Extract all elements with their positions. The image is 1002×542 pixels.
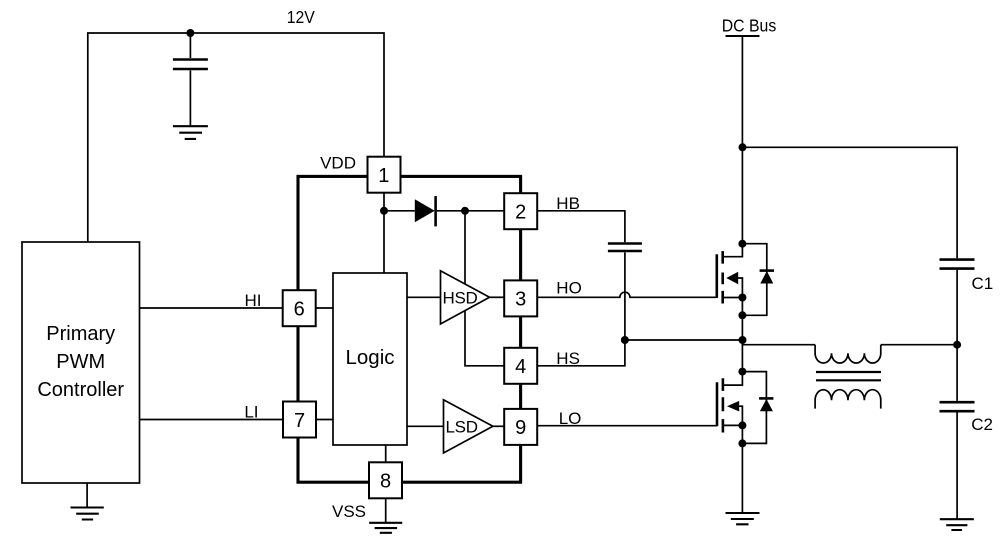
wire HSD to pin3 [490, 296, 504, 298]
svg-text:VSS: VSS [332, 502, 366, 521]
wire LSD to pin9 [493, 425, 504, 427]
capacitor C-VDD [173, 60, 208, 70]
svg-text:9: 9 [515, 417, 526, 439]
svg-text:6: 6 [294, 299, 305, 321]
transistor Q2 (low-side MOSFET) [717, 368, 773, 448]
logic box [333, 273, 407, 445]
wire transformer to C midpoint [881, 344, 957, 346]
diode bootstrap [415, 199, 435, 222]
wire switch to Q2 drain [741, 340, 743, 372]
wire boot cap to HS node [624, 252, 626, 340]
svg-text:LI: LI [244, 403, 258, 422]
capacitor C-boot [608, 244, 642, 252]
node switch [739, 336, 747, 344]
wire logic to LSD [407, 425, 444, 427]
ground VSS [369, 523, 402, 533]
svg-text:LO: LO [559, 409, 582, 428]
IC U1 border [298, 176, 521, 482]
wire HO with hop [538, 292, 717, 297]
node diode cathode junction [461, 207, 469, 215]
svg-text:1: 1 [378, 165, 389, 187]
svg-text:7: 7 [294, 410, 305, 432]
pin 1 (VDD) [368, 157, 401, 193]
svg-text:Controller: Controller [37, 379, 124, 401]
wire LO [538, 425, 718, 427]
transformer primary winding [815, 345, 881, 363]
svg-text:C2: C2 [971, 415, 993, 434]
svg-text:Primary: Primary [46, 323, 115, 345]
wire pin6 to logic [317, 307, 334, 309]
node 12V junction [186, 29, 194, 37]
pin 2 (HB) [504, 193, 537, 229]
pin 7 (LI) [283, 402, 316, 438]
svg-text:C1: C1 [972, 274, 994, 293]
wire diode anode [384, 210, 415, 212]
svg-text:PWM: PWM [56, 351, 105, 373]
wire HS [537, 340, 625, 366]
capacitor C1 [940, 260, 975, 269]
transistor Q1 (high-side MOSFET) [717, 240, 774, 320]
pin 9 (LO) [504, 409, 537, 445]
svg-text:HS: HS [556, 349, 580, 368]
buffer HSD [441, 271, 490, 324]
wire diode cathode [436, 210, 504, 212]
wire logic to pin8 [385, 445, 387, 464]
node C midpoint [953, 341, 961, 349]
node DC bus split [739, 143, 747, 151]
svg-text:DC Bus: DC Bus [722, 16, 777, 36]
ground 12V cap [173, 126, 208, 139]
wire VDD stem pin1 to logic [383, 193, 385, 274]
wire Q1 source to switch node [741, 315, 743, 340]
wire HB [538, 211, 625, 243]
PWM controller box [22, 242, 140, 483]
wire cap stem bottom [189, 70, 191, 126]
ground PWM [71, 508, 104, 520]
wire LI [140, 419, 283, 421]
svg-text:VDD: VDD [320, 154, 356, 173]
wire 12V rail [88, 33, 384, 242]
wire cap stem top [189, 33, 191, 58]
svg-text:HI: HI [245, 291, 262, 310]
wire pin8 ground stem [385, 498, 387, 523]
svg-text:4: 4 [515, 356, 526, 378]
ground C2 [940, 519, 974, 530]
svg-text:HO: HO [556, 279, 582, 298]
capacitor C2 [940, 402, 975, 411]
transformer core [816, 372, 881, 380]
wire cathode to pin4 [465, 211, 504, 366]
wire C2 to ground [956, 413, 958, 520]
transformer secondary winding [815, 390, 881, 409]
svg-text:HB: HB [556, 194, 580, 213]
wire DC bus down [741, 36, 743, 244]
wire switch node [625, 339, 743, 341]
svg-text:12V: 12V [287, 7, 315, 27]
wire PWM ground stem [86, 483, 88, 507]
pin 6 (HI) [283, 290, 316, 326]
pin 3 (HO) [504, 280, 537, 316]
pin 4 (HS) [504, 348, 537, 384]
node diode anode junction [380, 207, 388, 215]
svg-text:3: 3 [515, 289, 526, 311]
svg-text:LSD: LSD [446, 417, 478, 436]
terminal DC Bus [726, 35, 760, 37]
wire bus to C1 [743, 147, 958, 258]
svg-text:2: 2 [515, 202, 526, 224]
wire C1 to midpoint [956, 270, 958, 401]
svg-text:Logic: Logic [345, 346, 394, 369]
svg-text:8: 8 [380, 471, 391, 493]
buffer LSD [444, 400, 493, 453]
wire HI [140, 307, 283, 309]
node HS boot junction [621, 336, 629, 344]
wire switch node to transformer [743, 340, 816, 345]
wire Q2 source to ground [741, 443, 743, 513]
ground Q2 [726, 513, 760, 524]
wire pin7 to logic [317, 419, 334, 421]
svg-text:HSD: HSD [443, 288, 478, 307]
wire logic to HSD [407, 296, 441, 298]
pin 8 (VSS) [369, 462, 402, 498]
